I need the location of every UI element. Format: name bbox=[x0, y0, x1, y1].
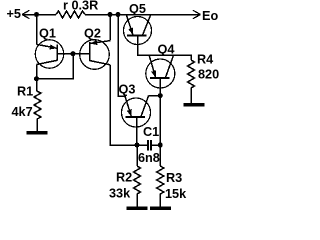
wire top rail left arrow bbox=[22, 10, 30, 18]
node junction dot Q4 base / Q3 collector bbox=[158, 93, 163, 98]
resistor R1 bbox=[34, 91, 41, 131]
wire base feedback loop bbox=[37, 54, 74, 79]
wire Q4 base down bbox=[159, 78, 161, 145]
svg-text:Q2: Q2 bbox=[84, 26, 101, 40]
resistor R2 bbox=[134, 166, 141, 207]
svg-text:R4: R4 bbox=[197, 53, 213, 67]
transistor Q4 bbox=[146, 56, 175, 88]
node junction dot rail-C bbox=[116, 12, 121, 17]
node junction dot R3 top bbox=[158, 143, 163, 148]
svg-text:Q5: Q5 bbox=[129, 2, 146, 16]
node junction dot R2 top bbox=[135, 143, 140, 148]
svg-text:Q3: Q3 bbox=[119, 83, 136, 97]
svg-text:Q1: Q1 bbox=[39, 26, 56, 40]
transistor Q1 bbox=[35, 40, 63, 68]
svg-text:6n8: 6n8 bbox=[138, 151, 160, 165]
svg-text:+5: +5 bbox=[7, 7, 21, 21]
transistor Q2 bbox=[80, 40, 111, 70]
svg-text:C1: C1 bbox=[143, 125, 159, 139]
resistor r 0.3R bbox=[56, 11, 85, 18]
node Eo output arrow bbox=[193, 10, 201, 18]
svg-text:820: 820 bbox=[198, 67, 219, 81]
capacitor C1 plates bbox=[148, 140, 151, 151]
ground R4 bbox=[184, 103, 205, 107]
node junction dot rail-B bbox=[108, 12, 113, 17]
svg-text:R2: R2 bbox=[116, 170, 132, 184]
wire Q2 collector down to C1 net bbox=[110, 65, 148, 145]
ground R3 bbox=[150, 207, 171, 211]
node junction dot at +5 bbox=[34, 12, 39, 17]
svg-text:33k: 33k bbox=[109, 186, 131, 200]
wire Q1 collector down bbox=[36, 64, 38, 91]
resistor R3 bbox=[157, 166, 164, 207]
svg-text:4k7: 4k7 bbox=[12, 105, 33, 119]
transistor Q5 bbox=[124, 15, 152, 44]
wire Q5 base down and right to R4 bbox=[138, 36, 192, 61]
wire +5 down to Q1 emitter bbox=[36, 15, 38, 45]
node junction dot bases bbox=[71, 51, 76, 56]
node junction dot R1 top bbox=[34, 76, 39, 81]
svg-text:Eo: Eo bbox=[202, 9, 218, 23]
wire R2 lead bbox=[136, 145, 138, 166]
wire Q1 base to Q2 base bbox=[57, 53, 90, 55]
wire C1 right plate to R3 net bbox=[151, 144, 160, 146]
transistor Q3 bbox=[122, 96, 151, 127]
wire Q3 collector to Q4 base bbox=[149, 95, 161, 97]
svg-text:R3: R3 bbox=[166, 171, 182, 185]
wire top rail right segment bbox=[85, 14, 200, 16]
resistor R4 bbox=[188, 60, 195, 103]
wire rail-C down to Q3 emitter bbox=[118, 15, 125, 97]
svg-text:R1: R1 bbox=[17, 85, 33, 99]
wire top rail left segment bbox=[22, 14, 56, 16]
ground R2 bbox=[127, 207, 148, 211]
ground R1 bbox=[27, 131, 48, 135]
wire R3 lead bbox=[159, 145, 161, 166]
svg-text:r 0.3R: r 0.3R bbox=[63, 0, 98, 12]
svg-text:15k: 15k bbox=[165, 187, 187, 201]
wire rail to Q2 emitter bbox=[109, 15, 111, 41]
svg-text:Q4: Q4 bbox=[158, 43, 175, 57]
wire Q3 base down bbox=[136, 117, 138, 145]
